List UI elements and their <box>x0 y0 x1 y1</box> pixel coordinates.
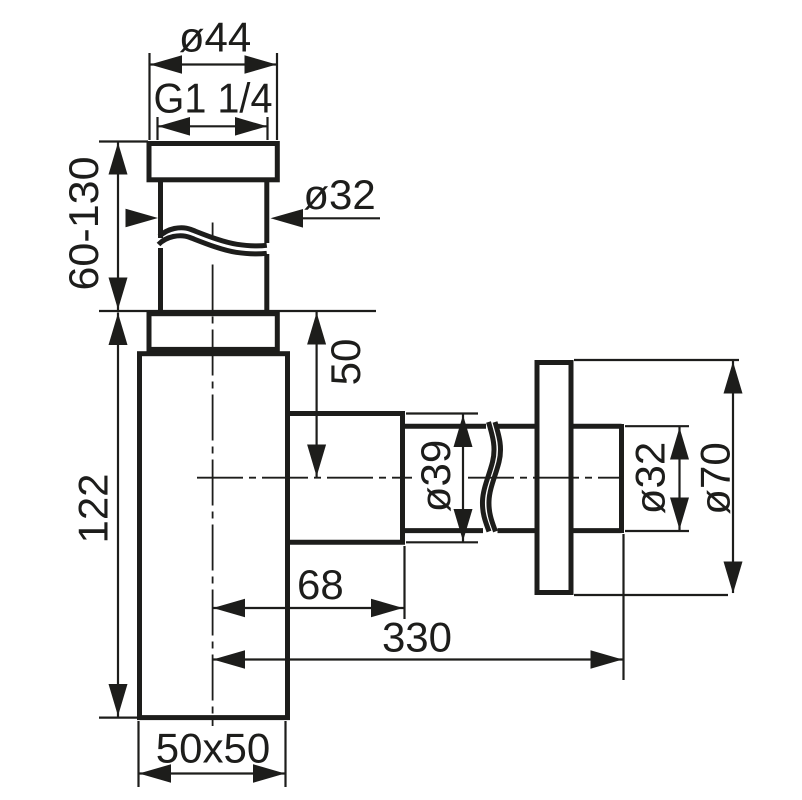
dim 50 line <box>316 312 318 477</box>
dim 60-130 line <box>117 142 119 310</box>
dim ø39 line <box>462 415 464 542</box>
svg-text:330: 330 <box>382 614 452 661</box>
dim ø32 outlet arrow bottom <box>670 498 689 530</box>
outlet pipe end cap <box>619 424 624 533</box>
dim ø70 extension top <box>574 359 739 361</box>
svg-text:ø44: ø44 <box>179 14 251 61</box>
dim 60-130 arrow bottom <box>109 278 128 310</box>
dim ø32 inlet arrow right <box>271 209 304 228</box>
dim 60-130 arrow top <box>109 143 128 175</box>
dim ø32 outlet arrow top <box>670 428 689 460</box>
svg-text:ø70: ø70 <box>692 442 739 514</box>
shared extension line at body top level <box>99 310 376 312</box>
svg-text:68: 68 <box>297 561 344 608</box>
dim ø39 arrow bottom <box>454 509 473 541</box>
outlet pipe top edge (right of wall flange) <box>571 424 622 429</box>
dim 122 arrow bottom <box>109 684 128 716</box>
dim ø39 extension top <box>406 412 478 414</box>
side outlet nut <box>288 414 403 543</box>
dim 50x50 arrow left <box>139 764 171 783</box>
dim ø32 inlet tail line <box>302 217 380 219</box>
dim ø70 arrow bottom <box>724 562 743 594</box>
vertical centerline <box>212 223 214 241</box>
outlet pipe break wave right <box>489 422 501 532</box>
dim 50x50 arrow right <box>253 764 285 783</box>
dim ø39 arrow top <box>454 415 473 447</box>
outlet pipe break wave left <box>482 422 494 532</box>
svg-text:50: 50 <box>322 339 369 386</box>
dim ø44 arrow right <box>245 55 277 74</box>
svg-text:ø32: ø32 <box>627 442 674 514</box>
horizontal centerline <box>197 477 412 479</box>
dim 330 line <box>213 658 623 660</box>
inlet pipe left edge upper segment <box>158 181 163 238</box>
svg-text:G1 1/4: G1 1/4 <box>154 75 273 122</box>
svg-text:ø39: ø39 <box>412 440 459 512</box>
dim 50 arrow bottom <box>307 445 326 477</box>
dim 330 arrow right <box>591 650 623 669</box>
top nut (inlet flange) <box>149 144 277 180</box>
dim G1 1/4 extension right <box>266 117 268 140</box>
inlet pipe break wave lower <box>159 236 267 254</box>
dim ø44 arrow left <box>150 55 182 74</box>
dim ø32 outlet extension bottom <box>625 530 689 532</box>
outlet pipe bottom edge (right of wall flange) <box>571 528 622 533</box>
dim ø70 extension bottom <box>574 594 728 596</box>
dim ø32 outlet line <box>678 427 680 530</box>
dim 122 line <box>117 313 119 717</box>
lower nut (flange above body) <box>149 314 277 350</box>
dim ø44 extension left <box>148 53 150 140</box>
dim G1 1/4 arrow left <box>158 117 190 136</box>
dim ø44 extension right <box>276 53 278 140</box>
dim 50x50 extension left <box>137 721 139 787</box>
dim 330 right extension <box>622 534 624 680</box>
wall flange <box>537 363 571 593</box>
dim G1 1/4 extension left <box>156 117 158 140</box>
dim ø70 line <box>732 361 734 593</box>
dim 60-130 top extension <box>99 140 148 142</box>
dim 330 arrow left <box>213 650 245 669</box>
inlet pipe break wave upper <box>160 228 267 246</box>
dim ø70 arrow top <box>724 362 743 394</box>
dim 68 arrow left <box>213 599 245 618</box>
outlet pipe top edge (left of break) <box>403 424 487 429</box>
dim 68 right extension <box>403 546 405 619</box>
dim G1 1/4 line <box>158 125 268 127</box>
dim ø39 extension bottom <box>406 541 478 543</box>
inlet pipe right edge lower segment <box>264 254 269 313</box>
siphon body <box>140 354 288 718</box>
dim ø32 inlet arrow left <box>126 209 159 228</box>
dim 50 arrow top <box>307 313 326 345</box>
dim 122 bottom extension <box>99 716 140 718</box>
outlet pipe bottom edge (right of break to wall flange) <box>498 528 538 533</box>
svg-text:60-130: 60-130 <box>60 157 107 291</box>
outlet pipe bottom edge (left of break) <box>403 528 484 533</box>
dim 50x50 extension right <box>284 721 286 787</box>
dim 122 arrow top <box>109 313 128 345</box>
dim ø32 outlet extension top <box>625 425 689 427</box>
inlet pipe left edge lower segment <box>158 248 163 313</box>
outlet pipe top edge (right of break to wall flange) <box>497 424 537 429</box>
dim ø44 line <box>150 63 278 65</box>
svg-text:122: 122 <box>70 473 117 543</box>
dim 50x50 line <box>139 772 286 774</box>
svg-text:ø32: ø32 <box>303 171 375 218</box>
dim 68 line <box>213 607 404 609</box>
dim 68 arrow right <box>371 599 403 618</box>
dim G1 1/4 arrow right <box>235 117 267 136</box>
inlet pipe right edge upper segment <box>264 181 269 243</box>
